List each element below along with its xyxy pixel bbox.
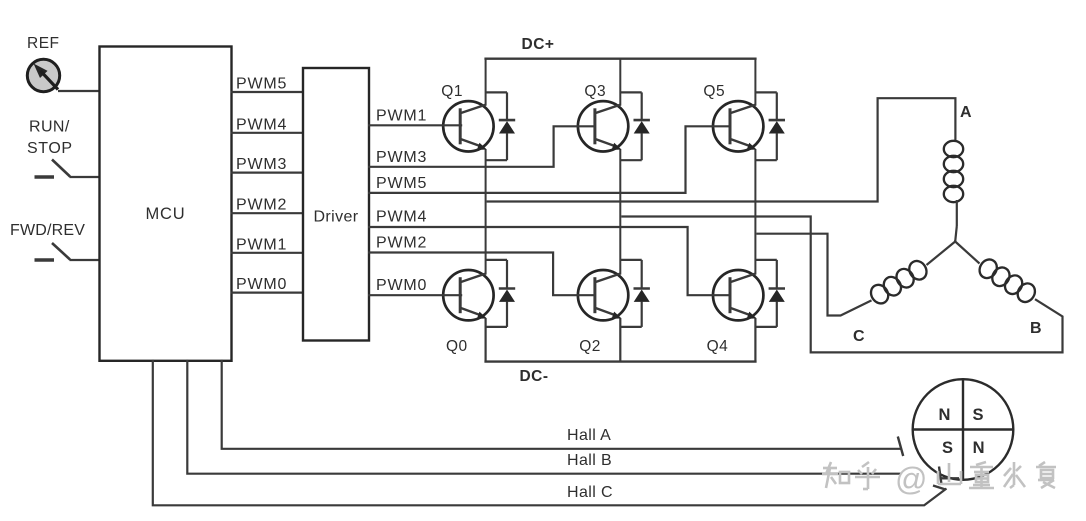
svg-text:RUN/: RUN/ bbox=[29, 119, 70, 136]
diode D2 (freewheel of Q2) bbox=[620, 260, 650, 327]
transistor Q0 bbox=[443, 270, 493, 320]
svg-text:PWM4: PWM4 bbox=[236, 116, 287, 133]
label PWM4 bbox=[376, 209, 427, 226]
label S (bottom-left pole) bbox=[942, 439, 953, 457]
wire phase A (leg1 to motor A) bbox=[487, 98, 956, 201]
svg-text:PWM1: PWM1 bbox=[236, 236, 287, 253]
svg-text:DC-: DC- bbox=[519, 368, 548, 385]
svg-text:C: C bbox=[853, 328, 865, 345]
svg-text:PWM0: PWM0 bbox=[376, 277, 427, 294]
switch RUN/STOP bbox=[35, 160, 101, 178]
label PWM3 bbox=[376, 149, 427, 166]
node star point bbox=[954, 240, 956, 243]
label PWM2 (MCU output) bbox=[236, 197, 287, 214]
svg-text:Hall B: Hall B bbox=[567, 452, 612, 469]
hall sensor rotor bbox=[913, 379, 1014, 480]
wire MCU PWM4 to Driver bbox=[231, 132, 305, 134]
wire bridge leg 3 bbox=[754, 59, 756, 362]
label Q5 bbox=[703, 83, 725, 100]
svg-text:Q3: Q3 bbox=[584, 83, 606, 100]
label Hall B bbox=[567, 452, 612, 469]
svg-text:@: @ bbox=[895, 461, 927, 497]
diode D4 (freewheel of Q4) bbox=[755, 260, 785, 327]
label S (top-right pole) bbox=[972, 406, 983, 424]
label RUN/STOP bbox=[27, 119, 73, 158]
wire Hall C bbox=[153, 360, 947, 506]
label Q1 bbox=[441, 83, 463, 100]
svg-text:N: N bbox=[939, 406, 951, 424]
switch FWD/REV bbox=[35, 243, 101, 260]
label PWM4 (MCU output) bbox=[236, 116, 287, 133]
label PWM5 (MCU output) bbox=[236, 76, 287, 93]
label REF bbox=[27, 35, 60, 52]
wire phase C (leg3 to motor C) bbox=[756, 234, 871, 316]
svg-text:S: S bbox=[942, 439, 953, 457]
wire PWM0 driver to Q0 base bbox=[368, 294, 462, 296]
inductor winding A bbox=[944, 141, 963, 242]
hall A contact bbox=[898, 437, 903, 457]
label Hall C bbox=[567, 484, 613, 501]
svg-text:STOP: STOP bbox=[27, 140, 73, 157]
wire PWM3 driver to Q3 base bbox=[368, 126, 595, 167]
svg-text:Q5: Q5 bbox=[703, 83, 725, 100]
diode D5 (freewheel of Q5) bbox=[755, 92, 785, 160]
wire REF to MCU bbox=[58, 90, 101, 92]
wire PWM4 driver to Q4 base bbox=[368, 227, 730, 295]
label B (motor terminal) bbox=[1030, 320, 1042, 337]
svg-text:PWM0: PWM0 bbox=[236, 276, 287, 293]
wire MCU PWM5 to Driver bbox=[231, 91, 305, 93]
svg-text:PWM2: PWM2 bbox=[236, 197, 287, 214]
svg-text:Hall C: Hall C bbox=[567, 484, 613, 501]
svg-text:B: B bbox=[1030, 320, 1042, 337]
label Hall A bbox=[567, 427, 611, 444]
label PWM1 (MCU output) bbox=[236, 236, 287, 253]
label PWM5 bbox=[376, 175, 427, 192]
diode D0 (freewheel of Q0) bbox=[486, 260, 516, 327]
wire bridge leg 2 bbox=[619, 59, 621, 362]
svg-text:FWD/REV: FWD/REV bbox=[10, 222, 85, 239]
label Q4 bbox=[707, 338, 729, 355]
wire PWM2 driver to Q2 base bbox=[368, 253, 595, 296]
hall C contact bbox=[933, 486, 946, 490]
wire Hall A bbox=[222, 360, 901, 449]
wire MCU PWM1 to Driver bbox=[231, 252, 305, 254]
label FWD/REV bbox=[10, 222, 85, 239]
MCU U1 bbox=[100, 47, 232, 361]
watermark 知乎 @山重水复 bbox=[822, 461, 1056, 497]
svg-text:A: A bbox=[960, 104, 972, 121]
label PWM0 (MCU output) bbox=[236, 276, 287, 293]
transistor Q1 bbox=[443, 101, 493, 151]
wire PWM5 driver to Q5 base bbox=[368, 126, 730, 193]
label PWM1 bbox=[376, 108, 427, 125]
label PWM3 (MCU output) bbox=[236, 156, 287, 173]
svg-text:Driver: Driver bbox=[313, 209, 358, 226]
label Q2 bbox=[579, 338, 601, 355]
diode D3 (freewheel of Q3) bbox=[620, 92, 650, 160]
transistor Q2 bbox=[578, 270, 628, 320]
svg-text:PWM1: PWM1 bbox=[376, 108, 427, 125]
svg-text:PWM2: PWM2 bbox=[376, 235, 427, 252]
svg-text:PWM5: PWM5 bbox=[236, 76, 287, 93]
label PWM2 bbox=[376, 235, 427, 252]
label DC+ bbox=[522, 36, 555, 53]
label PWM0 bbox=[376, 277, 427, 294]
svg-text:DC+: DC+ bbox=[522, 36, 555, 53]
svg-text:N: N bbox=[973, 439, 985, 457]
transistor Q5 bbox=[713, 101, 763, 151]
svg-text:Q4: Q4 bbox=[707, 338, 729, 355]
svg-text:S: S bbox=[972, 406, 983, 424]
label C (motor terminal) bbox=[853, 328, 865, 345]
wire phase B (leg2 to motor B) bbox=[621, 217, 1062, 353]
svg-text:PWM3: PWM3 bbox=[236, 156, 287, 173]
inductor winding C bbox=[868, 242, 956, 307]
svg-text:PWM3: PWM3 bbox=[376, 149, 427, 166]
diode D1 (freewheel of Q1) bbox=[486, 92, 516, 160]
inductor winding B bbox=[955, 242, 1038, 306]
label N (bottom-right pole) bbox=[973, 439, 985, 457]
DC- rail bbox=[484, 360, 756, 362]
wire MCU PWM0 to Driver bbox=[231, 292, 305, 294]
wire MCU PWM3 to Driver bbox=[231, 172, 305, 174]
svg-text:Q1: Q1 bbox=[441, 83, 463, 100]
wire MCU PWM2 to Driver bbox=[231, 212, 305, 214]
svg-text:MCU: MCU bbox=[146, 205, 186, 223]
hall B contact bbox=[939, 467, 959, 485]
wire bridge leg 1 bbox=[485, 59, 487, 362]
transistor Q3 bbox=[578, 101, 628, 151]
label DC- bbox=[519, 368, 548, 385]
svg-text:PWM5: PWM5 bbox=[376, 175, 427, 192]
DC+ rail bbox=[484, 58, 756, 60]
label N (top-left pole) bbox=[939, 406, 951, 424]
svg-text:Q0: Q0 bbox=[446, 338, 468, 355]
transistor Q4 bbox=[713, 270, 763, 320]
driver U2 bbox=[303, 68, 369, 341]
label Q3 bbox=[584, 83, 606, 100]
wire PWM1 driver to Q1 base bbox=[368, 124, 462, 126]
label Q0 bbox=[446, 338, 468, 355]
svg-text:Hall A: Hall A bbox=[567, 427, 611, 444]
wire Hall B bbox=[187, 360, 901, 474]
svg-text:REF: REF bbox=[27, 35, 60, 52]
svg-text:Q2: Q2 bbox=[579, 338, 601, 355]
svg-text:PWM4: PWM4 bbox=[376, 209, 427, 226]
label A (motor terminal) bbox=[960, 104, 972, 121]
potentiometer REF bbox=[27, 59, 59, 91]
